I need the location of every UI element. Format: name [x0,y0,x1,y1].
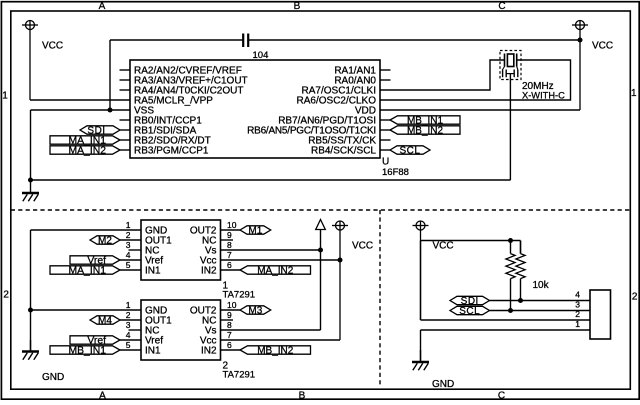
svg-text:B: B [299,390,306,400]
svg-text:10: 10 [227,220,237,230]
pin stub pin5 (IC2) [120,349,141,351]
pin number 2 (IC2) [126,310,131,320]
svg-text:2: 2 [126,310,131,320]
pin label Vcc (IC1) [200,255,217,266]
IC 1 TA7291 body [141,220,221,280]
svg-text:RB4/SCK/SCL: RB4/SCK/SCL [311,146,376,157]
pin stub pin6 (IC1) [221,269,241,271]
pin number 1 (connector) [575,319,580,329]
svg-text:SCL: SCL [400,145,421,156]
pin stub RB7 [380,119,390,121]
pin label RA1/AN1 [334,66,376,77]
pin stub U left y80 [120,79,131,81]
pin number 10 (IC2) [227,300,237,310]
svg-text:1: 1 [126,300,131,310]
junction R on SDI wire [518,298,523,303]
pin label OUT2 (IC2) [190,305,217,316]
dashed section divider horizontal [11,209,631,211]
net flag M4 (IC2) [90,315,120,326]
svg-text:MA_IN2: MA_IN2 [257,265,294,276]
pin number 5 (IC1) [126,260,131,270]
junction Vcc IC1 [338,258,343,263]
pin label RB3/PGM/CCP1 [134,146,209,157]
pin label RA0/AN0 [334,76,376,87]
svg-text:A: A [99,390,106,400]
svg-text:RB3/PGM/CCP1: RB3/PGM/CCP1 [134,146,209,157]
pin stub U right y70 [380,69,391,71]
svg-text:2: 2 [575,309,580,319]
pin stub pin5 (IC1) [120,269,141,271]
ground symbol (bottom-right) [412,350,429,370]
pin label RB4/SCK/SCL [311,146,376,157]
net flag M1 (IC1) [240,225,271,236]
svg-text:9: 9 [227,310,232,320]
wire capacitor branch to VSS [109,40,111,110]
junction R on SCL wire [508,308,513,313]
pin number 2 (IC1) [126,230,131,240]
junction VCC node top-right [578,38,583,43]
svg-text:TA7291: TA7291 [223,370,256,381]
pin stub U right y80 [380,79,391,81]
wire SDI to connector [490,300,591,302]
wire VCC to connector pin2 [421,241,591,321]
pin number 8 (IC2) [227,320,232,330]
svg-text:3: 3 [126,320,131,330]
value label 20MHz [522,81,554,92]
net label GND text (bottom-right) [432,379,454,390]
pin label RA5/MCLR_/VPP [134,96,213,107]
wire capacitor left lead [110,39,243,41]
connector CN1 [590,290,611,339]
svg-text:M1: M1 [248,225,262,236]
pin stub pin4 (IC1) [120,259,141,261]
svg-text:2: 2 [3,289,9,300]
svg-text:M3: M3 [248,305,262,316]
pin label NC (IC1) [202,235,216,246]
svg-text:8: 8 [227,320,232,330]
pin label RA7/OSC1/CLKI [302,86,376,97]
wire Vcc (IC2) [221,339,341,341]
pin stub pin3 NC (IC2) [129,329,142,331]
net flag MB_IN2 (IC2) [240,345,311,356]
junction capacitor-VSS [108,108,113,113]
pin label GND (IC1) [145,225,167,236]
svg-text:M2: M2 [98,235,112,246]
svg-text:104: 104 [253,50,269,61]
capacitor C bypass [243,34,248,48]
svg-text:7: 7 [227,250,232,260]
svg-text:MB_IN1: MB_IN1 [68,345,106,356]
pin stub pin2 (IC1) [120,239,141,241]
svg-text:MB_IN2: MB_IN2 [257,345,294,356]
junction VSS-GND node [28,178,33,183]
net flag MA_IN1 (left) [50,135,120,146]
power symbol VCC (bottom-right) [413,221,429,320]
svg-text:4: 4 [126,330,131,340]
svg-text:6: 6 [227,340,232,350]
svg-text:9: 9 [227,230,232,240]
svg-text:1: 1 [2,91,8,102]
pin stub U right y140 [380,139,391,141]
power symbol Vs arrow [316,220,326,331]
svg-text:VCC: VCC [433,241,454,252]
pin label NC (IC2) [202,315,216,326]
pin number 6 (IC1) [227,260,232,270]
ground symbol (bottom-left) [22,340,39,360]
pin stub U left y90 [120,89,131,91]
power symbol VCC (bottom-left) [332,221,348,340]
pin number 3 (connector) [575,300,580,310]
net flag MB_IN1 (right) [390,115,460,126]
pin label VDD [355,106,376,117]
pin stub pin10 (IC2) [221,309,241,311]
wire SCL to connector [490,310,591,312]
svg-text:VCC: VCC [352,240,373,251]
pin number 7 (IC1) [227,250,232,260]
power symbol VCC (top-left) [22,21,38,101]
svg-text:A: A [99,1,106,12]
pin label OUT1 (IC1) [145,235,172,246]
svg-text:VCC: VCC [42,41,63,52]
pin label Vref (IC2) [145,335,163,346]
net flag M3 (IC2) [240,305,271,316]
wire IC2 GND to ground bus [31,309,142,311]
wire ground bus vertical [30,230,32,352]
svg-text:3: 3 [126,240,131,250]
value label X-WITH-C [522,91,565,101]
net label VCC text (top-right) [592,41,613,52]
net flag IN1 flag (IC2) [50,345,120,356]
wire Vcc (IC1) [221,259,341,261]
svg-text:IN2: IN2 [201,265,217,276]
pin label RB6/AN5/PGC/T1OSO/T1CKI [247,126,376,137]
svg-text:16F88: 16F88 [382,167,409,178]
wire OSC2 to crystal [380,60,571,100]
svg-text:U: U [382,157,389,168]
svg-text:1: 1 [126,220,131,230]
pin number 3 (IC1) [126,240,131,250]
svg-text:8: 8 [227,240,232,250]
wire GND rail y180 [31,179,511,181]
net flag Vref (IC2) [70,335,120,346]
net label GND text (bottom-left) [42,372,64,383]
pin label IN2 (IC1) [201,265,217,276]
pin label RB5/SS/TX/CK [308,136,376,147]
part name TA7291 (IC2) [223,370,256,381]
pin stub RB1 [120,129,130,131]
pin label RB1/SDI/SDA [134,126,197,137]
svg-text:7: 7 [227,330,232,340]
svg-text:GND: GND [432,379,454,390]
pin number 9 (IC2) [227,310,232,320]
wire VDD [380,109,580,111]
ground symbol (top-left) [22,180,39,201]
pin stub pin10 (IC1) [221,229,241,231]
reference designator 1 [223,280,229,291]
svg-text:10: 10 [227,300,237,310]
pin number 1 (IC1) [126,220,131,230]
svg-text:C: C [498,390,505,400]
pin stub pin2 (IC2) [120,319,141,321]
svg-text:IN2: IN2 [201,345,217,356]
pin number 1 (IC2) [126,300,131,310]
pin number 3 (IC2) [126,320,131,330]
pin stub pin3 NC (IC1) [129,249,142,251]
pin number 4 (IC1) [126,250,131,260]
pin number 7 (IC2) [227,330,232,340]
svg-text:MB_IN2: MB_IN2 [407,125,444,136]
pin label IN1 (IC2) [145,345,161,356]
net flag MB_IN2 (right) [390,125,460,136]
svg-text:3: 3 [575,300,580,310]
net flag SCL (right) [390,145,430,156]
net flag SDI (bottom) [450,296,490,307]
svg-text:IN1: IN1 [145,265,161,276]
svg-text:2: 2 [126,230,131,240]
wire VCC to pullups [421,240,521,242]
resistor R pullup SDI 10k [516,241,525,301]
wire IC1 GND to ground bus [31,229,142,231]
power symbol VCC (top-right) [572,21,588,111]
pin stub pin9 NC (IC2) [221,319,234,321]
svg-text:10k: 10k [533,280,550,291]
dashed section divider vertical [379,210,381,387]
pin label OUT2 (IC1) [190,225,217,236]
pin label RB2/SDO/RX/DT [134,136,211,147]
pin stub pin6 (IC2) [221,349,241,351]
net flag IN1 flag (IC1) [50,265,120,276]
wire capacitor right lead to VCC [249,39,580,41]
net flag MA_IN2 (IC1) [240,265,311,276]
pin label NC (IC2) [145,325,159,336]
wire pullup right top corner [520,241,522,254]
resistor R pullup SCL 10k [506,241,515,311]
pin stub RB6 [380,129,390,131]
reference designator 2 [223,360,229,371]
wire ground to connector pin1 [421,330,591,362]
net flag M2 (IC1) [90,235,120,246]
IC 2 TA7291 body [141,300,221,360]
pin label RA4/AN4/T0CKI/C2OUT [134,86,243,97]
pin stub U left y70 [120,69,131,71]
pin number 2 (connector) [575,309,580,319]
svg-text:C: C [498,1,505,12]
svg-text:GND: GND [42,372,64,383]
wire OSC1 to crystal [380,60,505,90]
net label VCC text (bottom-left) [352,240,373,251]
crystal X1 with built-in capacitors [500,51,521,80]
pin number 5 (IC2) [126,340,131,350]
svg-text:4: 4 [575,290,580,300]
svg-text:IN1: IN1 [145,345,161,356]
part name TA7291 (IC1) [223,290,256,301]
pin stub RB4 [380,149,390,151]
value label 104 [253,50,269,61]
pin label OUT1 (IC2) [145,315,172,326]
value label 10k [533,280,550,291]
pin label Vref (IC1) [145,255,163,266]
svg-text:SCL: SCL [459,306,480,317]
net flag SDI (left) [80,125,120,136]
svg-text:1: 1 [631,88,637,99]
wire VSS vertical to ground [30,110,32,181]
pin number 8 (IC1) [227,240,232,250]
pin label GND (IC2) [145,305,167,316]
pin label Vs (IC1) [205,245,217,256]
net label VCC text (top-left) [42,41,63,52]
pin label RB0/INT/CCP1 [134,116,202,127]
svg-text:6: 6 [227,260,232,270]
pin number 9 (IC1) [227,230,232,240]
pin label RB7/AN6/PGD/T1OSI [278,116,376,127]
reference designator U [382,157,389,168]
pin label IN2 (IC2) [201,345,217,356]
svg-text:B: B [294,1,301,12]
wire VCC to MCLR [30,99,130,101]
junction ground bus IC2 [28,308,33,313]
svg-text:4: 4 [126,250,131,260]
net flag MA_IN2 (left) [50,145,120,156]
pin label IN1 (IC1) [145,265,161,276]
svg-text:M4: M4 [98,315,112,326]
net flag Vref (IC1) [70,255,120,266]
svg-text:VCC: VCC [592,41,613,52]
pin stub RB3 [120,149,130,151]
pin number 4 (connector) [575,290,580,300]
IC U 16F88 body [130,60,380,158]
pin number 6 (IC2) [227,340,232,350]
wire crystal center pin to ground rail [509,74,511,180]
pin label NC (IC1) [145,245,159,256]
net flag SCL (bottom) [450,306,490,317]
pin stub U left y120 [120,119,131,121]
wire Vs (IC2) [221,329,321,331]
junction pullup R left top [508,238,513,243]
pin label Vcc (IC2) [200,335,217,346]
svg-text:5: 5 [126,340,131,350]
part name 16F88 [382,167,409,178]
svg-text:X-WITH-C: X-WITH-C [522,91,565,101]
pin stub pin4 (IC2) [120,339,141,341]
svg-text:1: 1 [575,319,580,329]
pin number 4 (IC2) [126,330,131,340]
junction Vs IC1 [318,248,323,253]
pin label RA6/OSC2/CLKO [297,96,377,107]
pin number 10 (IC1) [227,220,237,230]
wire Vs (IC1) [221,249,321,251]
pin stub RB2 [120,139,130,141]
svg-text:MA_IN2: MA_IN2 [68,145,106,156]
pin label RA2/AN2/CVREF/VREF [134,66,242,77]
net label VCC text (bottom-right) [433,241,454,252]
svg-text:MA_IN1: MA_IN1 [68,265,106,276]
wire VSS horizontal [31,109,131,111]
pin stub pin9 NC (IC1) [221,239,234,241]
svg-text:5: 5 [126,260,131,270]
pin label Vs (IC2) [205,325,217,336]
pin label VSS [134,106,154,117]
pin label RA3/AN3/VREF+/C1OUT [134,76,248,87]
svg-text:2: 2 [632,291,638,302]
